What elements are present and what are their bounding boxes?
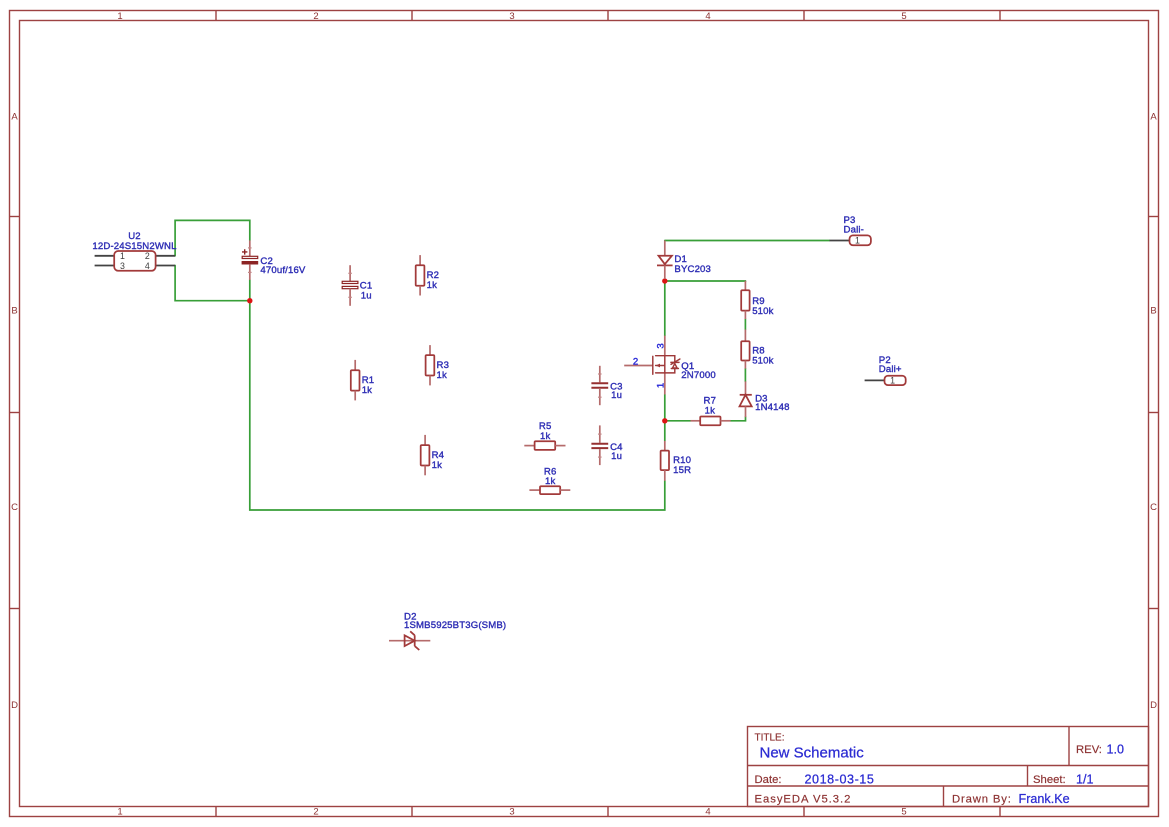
svg-text:1: 1 <box>117 807 122 818</box>
svg-text:1: 1 <box>117 11 122 22</box>
svg-text:1k: 1k <box>427 280 437 291</box>
wire U2 pin2 to C2 top <box>175 220 250 255</box>
svg-text:A: A <box>11 111 18 122</box>
wire junction C down to R10 top <box>664 421 666 441</box>
resistor R8 510k <box>741 330 773 369</box>
title block <box>748 727 1149 807</box>
svg-text:BYC203: BYC203 <box>674 264 711 275</box>
wire junction B down to Q1 drain <box>664 281 666 336</box>
svg-text:2: 2 <box>313 11 318 22</box>
svg-text:12D-24S15N2WNL: 12D-24S15N2WNL <box>92 241 177 252</box>
capacitor C2 470uf/16V (polarized) <box>242 240 306 280</box>
transistor Q1 2N7000 (N-MOSFET) <box>624 336 716 395</box>
junction node C <box>662 418 667 423</box>
svg-text:1: 1 <box>890 376 895 386</box>
svg-text:1: 1 <box>655 383 666 388</box>
svg-text:15R: 15R <box>673 465 691 476</box>
svg-text:4: 4 <box>705 11 710 22</box>
svg-text:1k: 1k <box>362 385 372 396</box>
capacitor C4 1u <box>591 425 623 465</box>
svg-text:1N4148: 1N4148 <box>755 402 790 413</box>
svg-text:5: 5 <box>901 11 906 22</box>
diode D1 BYC203 <box>657 241 711 280</box>
svg-text:1: 1 <box>855 236 860 246</box>
wire U2 pin4 to junction A <box>175 266 250 301</box>
svg-text:510k: 510k <box>752 355 773 366</box>
svg-text:Sheet:: Sheet: <box>1033 774 1066 786</box>
svg-text:C: C <box>11 502 18 513</box>
svg-text:470uf/16V: 470uf/16V <box>260 265 306 276</box>
resistor R5 1k (horizontal) <box>524 421 565 450</box>
svg-text:3: 3 <box>509 807 514 818</box>
wire R8 bottom to D3 top <box>744 369 746 382</box>
svg-text:3: 3 <box>509 11 514 22</box>
svg-text:B: B <box>1150 305 1156 316</box>
svg-text:Dali-: Dali- <box>844 224 864 235</box>
svg-text:4: 4 <box>705 807 710 818</box>
connector P2 Dali+ <box>865 355 906 386</box>
resistor R7 1k (horizontal) <box>691 396 731 426</box>
wire R9 bottom to R8 top <box>744 319 746 330</box>
svg-text:4: 4 <box>145 261 150 271</box>
capacitor C3 1u <box>591 366 622 405</box>
wires <box>175 220 829 510</box>
svg-text:D: D <box>1150 700 1157 711</box>
resistor R4 1k <box>421 435 445 475</box>
svg-text:B: B <box>11 305 17 316</box>
svg-text:2018-03-15: 2018-03-15 <box>805 772 875 786</box>
wire R7 right to D3 bottom <box>731 417 746 421</box>
svg-text:1u: 1u <box>361 290 372 301</box>
svg-text:C: C <box>1150 502 1157 513</box>
resistor R2 1k <box>416 255 439 295</box>
svg-text:3: 3 <box>120 261 125 271</box>
svg-text:1.0: 1.0 <box>1107 742 1125 756</box>
resistor R9 510k <box>741 281 773 319</box>
capacitor C1 1u <box>342 265 372 306</box>
wire Q1 source to junction C <box>664 395 666 421</box>
wire D1 top to P3 <box>665 240 830 242</box>
connector P3 Dali- <box>830 215 871 246</box>
svg-text:Drawn By:: Drawn By: <box>952 794 1012 806</box>
svg-text:EasyEDA V5.3.2: EasyEDA V5.3.2 <box>755 794 852 806</box>
svg-text:TITLE:: TITLE: <box>755 733 785 744</box>
svg-text:D: D <box>11 700 18 711</box>
junction node A <box>247 298 252 303</box>
diode D3 1N4148 <box>740 381 790 417</box>
svg-text:1: 1 <box>120 251 125 261</box>
svg-text:1SMB5925BT3G(SMB): 1SMB5925BT3G(SMB) <box>404 620 506 631</box>
wire junction A down along bottom to R10 bottom <box>250 301 665 510</box>
wire C2 bottom to junction A <box>249 280 251 301</box>
svg-text:5: 5 <box>901 807 906 818</box>
resistor R6 1k (horizontal) <box>529 466 570 494</box>
resistor R3 1k <box>426 345 449 385</box>
svg-text:1k: 1k <box>540 431 550 442</box>
svg-text:1k: 1k <box>432 460 442 471</box>
svg-text:2: 2 <box>633 356 638 367</box>
wire junction B to R9 top <box>665 280 746 282</box>
svg-text:A: A <box>1150 111 1157 122</box>
svg-text:2: 2 <box>145 251 150 261</box>
junction node B <box>662 278 667 283</box>
svg-text:510k: 510k <box>752 306 773 317</box>
wire junction C to R7 left <box>665 420 691 422</box>
diode D2 1SMB5925BT3G(SMB) zener <box>389 612 506 650</box>
svg-text:New Schematic: New Schematic <box>760 745 865 762</box>
svg-text:Frank.Ke: Frank.Ke <box>1019 792 1070 806</box>
svg-text:REV:: REV: <box>1076 744 1102 756</box>
svg-text:2: 2 <box>313 807 318 818</box>
svg-text:3: 3 <box>655 343 666 348</box>
svg-text:1k: 1k <box>705 405 715 416</box>
module U2 12D-24S15N2WNL <box>92 231 177 271</box>
svg-text:1k: 1k <box>545 476 555 487</box>
svg-text:1u: 1u <box>611 390 622 401</box>
svg-text:1/1: 1/1 <box>1076 772 1094 786</box>
svg-text:Date:: Date: <box>755 774 782 786</box>
svg-text:2N7000: 2N7000 <box>681 370 716 381</box>
svg-text:1k: 1k <box>437 370 447 381</box>
svg-text:1u: 1u <box>611 451 622 462</box>
svg-text:Dali+: Dali+ <box>879 364 902 375</box>
resistor R1 1k <box>351 360 374 401</box>
resistor R10 15R <box>661 441 692 481</box>
